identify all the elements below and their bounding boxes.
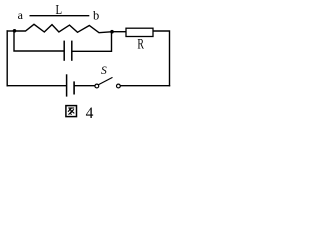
- battery long plate (positive): [66, 74, 68, 96]
- svg-text:R: R: [137, 36, 144, 52]
- wire bottom right from switch to right vertical: [120, 85, 169, 87]
- wire battery to switch: [75, 85, 95, 87]
- wire node b to resistor R: [112, 31, 126, 33]
- switch S left contact circle: [95, 84, 99, 88]
- battery short plate (negative): [73, 81, 75, 94]
- svg-text:S: S: [101, 65, 107, 77]
- node b junction dot: [110, 30, 114, 34]
- caption hanzi tu (figure) drawn glyph: [66, 106, 77, 117]
- svg-text:4: 4: [86, 105, 94, 122]
- svg-text:L: L: [56, 2, 63, 17]
- switch S blade: [99, 77, 113, 84]
- wire left vertical of outer loop: [6, 31, 8, 86]
- wire capacitor branch: capacitor right plate across and up to node b: [72, 32, 111, 52]
- resistor L zigzag (resistance wire between a and b): [15, 24, 113, 32]
- svg-text:a: a: [18, 8, 24, 22]
- capacitor C left plate: [63, 41, 65, 61]
- svg-text:b: b: [93, 9, 99, 23]
- switch S right contact circle: [117, 84, 121, 88]
- annotation dimension line from a to b: [30, 15, 90, 17]
- capacitor C right plate: [71, 41, 73, 61]
- wire resistor R right side to right vertical: [153, 31, 170, 86]
- wire capacitor branch: node a down and across to capacitor left plate: [14, 31, 64, 51]
- resistor R box: [126, 28, 153, 36]
- wire top-left horizontal to node a: [7, 30, 14, 32]
- wire bottom left from left vertical to battery: [7, 85, 66, 87]
- node a junction dot: [13, 29, 17, 33]
